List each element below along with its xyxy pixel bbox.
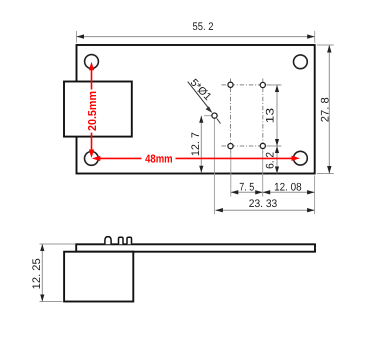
extension line 12.25 top [40, 243, 76, 245]
dimension line 12.7 [200, 116, 202, 173]
dimension line 7.5 [231, 191, 263, 193]
red arrow left into bottom-left hole [92, 156, 101, 161]
red arrow right into bottom-right hole [292, 156, 301, 161]
arrow 7.5 right [255, 190, 263, 194]
arrow 12.08 left [263, 190, 271, 194]
svg-text:7. 5: 7. 5 [239, 181, 254, 193]
extension line 13 top [267, 84, 282, 86]
arrow 23.33 right [307, 208, 315, 212]
arrow 12.25 top [40, 244, 44, 251]
centerline vertical left column [230, 79, 232, 153]
arrow 55.2 left [77, 34, 85, 38]
extension line 55.2 left [76, 31, 78, 43]
centerline horizontal bottom row [222, 145, 282, 147]
dimension line 23.33 [215, 209, 314, 211]
extension line 13 bottom [267, 145, 282, 147]
svg-text:20.5mm: 20.5mm [87, 91, 99, 131]
extension line 12.08 right [314, 176, 316, 215]
extension line 7.5 left [230, 150, 232, 197]
board outline (top view) [77, 45, 315, 174]
dimension line 12.25 [41, 244, 43, 302]
arrow 6.2 bottom [275, 167, 279, 174]
arrow 13 top [275, 85, 279, 92]
red horizontal dim line 48mm right segment [176, 157, 295, 159]
arrow 12.25 bottom [40, 295, 44, 302]
extension line 55.2 right [314, 31, 316, 43]
arrow 12.08 right [307, 190, 315, 194]
arrow 12.7 top [199, 116, 203, 123]
svg-text:12. 25: 12. 25 [31, 258, 43, 289]
small hole A2 [260, 82, 265, 87]
arrow 13 bottom [275, 139, 279, 146]
extension line 12.7 top [204, 115, 212, 117]
dimension line 13 [276, 85, 278, 146]
pin P2 [119, 237, 124, 244]
hole top-left [85, 55, 99, 69]
svg-text:27. 8: 27. 8 [320, 97, 332, 122]
svg-text:6. 2: 6. 2 [265, 152, 277, 169]
connector block (top view) [64, 82, 132, 137]
dimension line 55.2 [77, 36, 315, 38]
extension line 27.8 bottom [317, 173, 334, 175]
arrow 23.33 left [215, 208, 223, 212]
small hole A1 [228, 82, 233, 87]
extension line 27.8 top [317, 44, 334, 46]
leader line 5*D1 [188, 82, 211, 111]
red arrow down into bottom-left hole [89, 150, 94, 159]
centerline vertical right column [262, 79, 264, 153]
small hole A5 [212, 113, 217, 118]
centerline horizontal top row [222, 84, 282, 86]
arrow 55.2 right [307, 34, 315, 38]
leader arrow 5*D1 [206, 106, 213, 113]
small hole A3 [228, 144, 233, 149]
pin arch P1 [105, 237, 111, 245]
pin P3 [127, 237, 132, 244]
extension line 7.5 right [262, 150, 264, 197]
extension line 12.25 bottom [40, 301, 63, 303]
red vertical dim line 20.5mm upper segment [91, 67, 93, 90]
arrow 6.2 top [275, 146, 279, 153]
arrow 12.7 bottom [199, 166, 203, 173]
small hole A4 [260, 143, 265, 148]
svg-text:48mm: 48mm [145, 153, 173, 165]
hole bottom-right [294, 151, 308, 165]
dimension line 12.08 [263, 191, 315, 193]
dimension line 27.8 [328, 45, 330, 174]
side view connector block [64, 252, 133, 302]
svg-text:23. 33: 23. 33 [249, 198, 278, 210]
red horizontal dim line 48mm left segment [97, 157, 142, 159]
svg-text:12. 08: 12. 08 [274, 181, 302, 193]
extension line 23.33 left (through board from small hole) [213, 119, 215, 215]
arrow 7.5 left [231, 190, 239, 194]
svg-text:55. 2: 55. 2 [193, 21, 214, 33]
svg-text:13: 13 [265, 108, 277, 124]
arrow 27.8 bottom [327, 166, 331, 174]
hole top-right [294, 55, 308, 69]
side view PCB bar [76, 244, 315, 251]
hole bottom-left [85, 152, 99, 166]
leader tail 5*D1 [217, 119, 221, 124]
dimension line 6.2 [276, 146, 278, 174]
red arrow up into top-left hole [89, 62, 94, 71]
red vertical dim line 20.5mm lower segment [91, 133, 93, 152]
arrow 27.8 top [327, 45, 331, 53]
svg-text:12. 7: 12. 7 [190, 132, 202, 156]
